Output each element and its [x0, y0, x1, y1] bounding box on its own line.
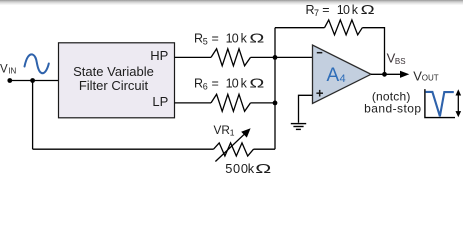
node: R5 / inverting input junction: [273, 55, 278, 60]
wire: feedback top left segment: [275, 27, 325, 29]
svg-text:10k: 10k: [226, 76, 248, 90]
resistor R7: [325, 20, 363, 35]
wire: summing node vertical rail: [274, 28, 276, 150]
wire: input to filter box: [10, 80, 59, 82]
svg-text:Ω: Ω: [249, 76, 264, 90]
svg-text:5: 5: [203, 36, 208, 46]
wire: feedback right segment down to output: [362, 28, 384, 75]
VR1 wiper arrow: [215, 133, 245, 162]
svg-text:500k: 500k: [225, 161, 255, 176]
svg-text:BS: BS: [395, 57, 406, 66]
notch response icon axes: [425, 89, 455, 118]
svg-text:1: 1: [230, 128, 235, 138]
svg-text:4: 4: [340, 73, 346, 85]
node VIN label: [0, 64, 17, 76]
resistor R6: [211, 94, 251, 111]
wire: R6 to summing node: [251, 102, 276, 104]
wire: branch down from input junction: [32, 81, 34, 150]
notch response curve: [426, 92, 454, 116]
R6 value label: [194, 76, 264, 91]
svg-text:LP: LP: [152, 94, 168, 109]
svg-text:band-stop: band-stop: [364, 102, 421, 116]
svg-text:HP: HP: [150, 48, 168, 63]
VR1 label: [214, 123, 235, 138]
input terminal dot: [7, 78, 12, 83]
wire: R5 to summing node: [251, 56, 276, 58]
R7 value label: [306, 3, 375, 18]
op-amp label A4: [327, 65, 346, 86]
svg-text:VR: VR: [214, 123, 230, 137]
svg-text:R: R: [194, 31, 203, 45]
notch depth double arrow: [457, 94, 459, 114]
svg-text:State Variable: State Variable: [73, 64, 154, 79]
op-amp A4: [313, 45, 372, 104]
top shadow bar: [0, 0, 463, 5]
wire: op-amp output to node: [371, 73, 401, 75]
wire: summing node to op-amp inverting input: [275, 56, 313, 58]
svg-text:=: =: [212, 31, 219, 45]
R5 value label: [194, 31, 264, 46]
svg-text:R: R: [194, 76, 203, 90]
arrow to Vout: [400, 71, 409, 78]
svg-text:10k: 10k: [337, 3, 359, 17]
sine wave source symbol: [25, 54, 49, 73]
svg-text:OUT: OUT: [422, 74, 439, 83]
wire: VR1 to summing rail: [254, 148, 276, 150]
svg-text:IN: IN: [8, 67, 16, 76]
junction node dot (input to VR1 branch): [30, 78, 35, 83]
svg-text:A: A: [327, 65, 340, 86]
wire: non-inverting input to ground: [299, 95, 313, 123]
ground: [291, 124, 306, 130]
resistor R5: [211, 49, 251, 66]
svg-text:7: 7: [314, 8, 319, 18]
svg-text:=: =: [322, 3, 329, 17]
node VBS label: [387, 51, 406, 66]
potentiometer VR1 bottom wire: [33, 148, 214, 150]
response annotation text: [364, 89, 421, 115]
wire: HP output to R5: [175, 56, 212, 58]
wire: LP output to R6: [175, 102, 212, 104]
node: output junction: [382, 72, 387, 77]
svg-text:V: V: [0, 64, 8, 76]
node VOUT label: [413, 69, 439, 84]
node: R6 junction: [273, 101, 278, 106]
svg-text:10k: 10k: [226, 31, 248, 45]
svg-text:=: =: [212, 76, 219, 90]
svg-text:Ω: Ω: [255, 161, 271, 176]
svg-text:Ω: Ω: [361, 4, 375, 17]
svg-text:Filter Circuit: Filter Circuit: [79, 78, 149, 93]
op-amp inverting input marker: [317, 52, 323, 54]
filter block: State Variable Filter Circuit: [59, 43, 175, 118]
potentiometer VR1: [214, 143, 254, 156]
svg-text:Ω: Ω: [249, 31, 264, 45]
svg-text:6: 6: [203, 81, 208, 91]
op-amp non-inverting input marker: [316, 92, 323, 94]
